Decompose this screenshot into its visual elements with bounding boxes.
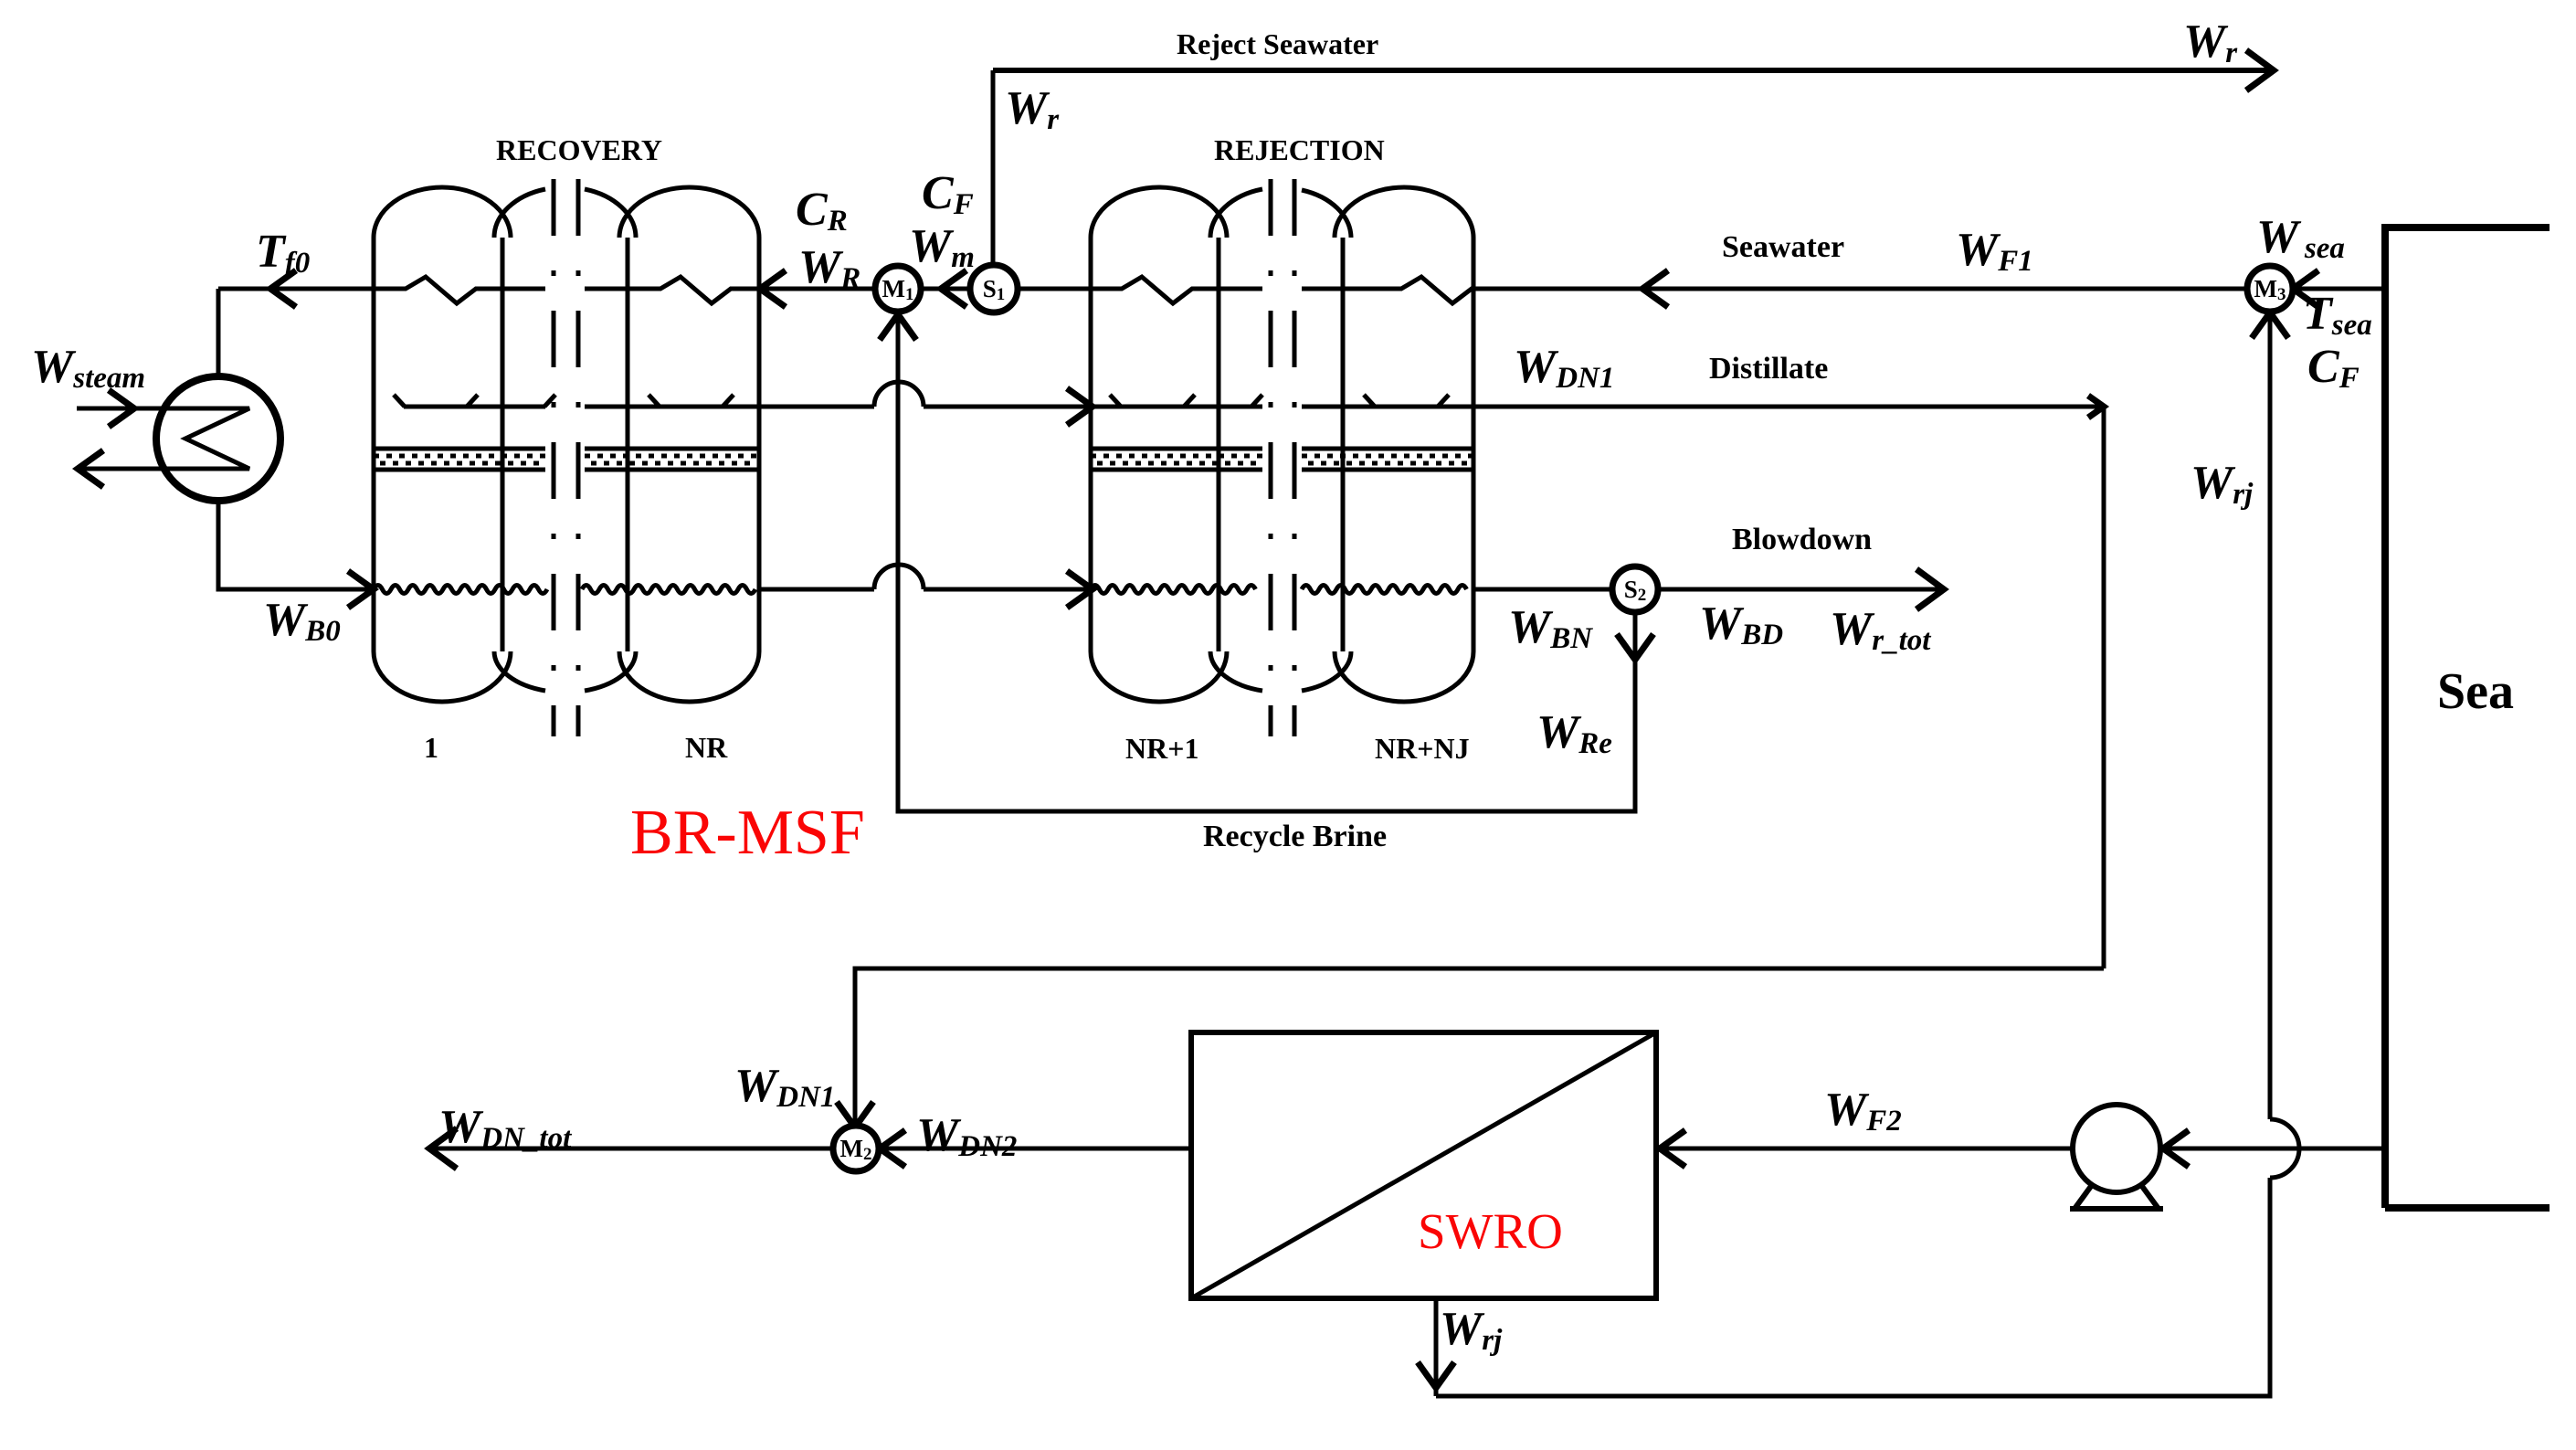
svg-text:Blowdown: Blowdown — [1732, 523, 1872, 556]
svg-text:NR+NJ: NR+NJ — [1375, 732, 1470, 765]
svg-text:Seawater: Seawater — [1722, 230, 1844, 264]
svg-text:Recycle Brine: Recycle Brine — [1203, 820, 1387, 853]
svg-text:RECOVERY: RECOVERY — [496, 133, 662, 166]
svg-text:NR+1: NR+1 — [1125, 732, 1198, 765]
svg-text:SWRO: SWRO — [1418, 1203, 1563, 1259]
svg-text:NR: NR — [685, 731, 728, 764]
svg-text:1: 1 — [424, 731, 438, 764]
svg-text:Sea: Sea — [2437, 663, 2514, 720]
svg-text:BR-MSF: BR-MSF — [630, 798, 865, 868]
svg-text:REJECTION: REJECTION — [1214, 133, 1385, 166]
svg-text:Distillate: Distillate — [1709, 352, 1828, 386]
svg-text:Reject Seawater: Reject Seawater — [1177, 27, 1378, 60]
